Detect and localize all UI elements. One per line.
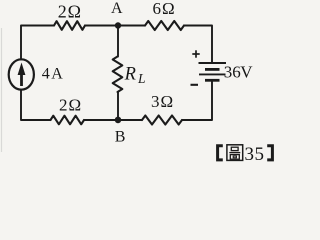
node B junction dot — [115, 117, 122, 124]
resistor 2ohm bottom zigzag — [51, 116, 85, 125]
svg-text:2Ω: 2Ω — [59, 96, 82, 115]
svg-text:2Ω: 2Ω — [58, 2, 82, 22]
svg-text:L: L — [137, 71, 146, 86]
battery minus sign — [191, 84, 199, 86]
svg-text:4A: 4A — [42, 66, 65, 83]
svg-text:B: B — [115, 129, 126, 146]
svg-text:6Ω: 6Ω — [153, 0, 176, 18]
svg-text:A: A — [111, 0, 123, 17]
wire node A to 6ohm — [118, 25, 145, 27]
wire node B to 2ohm bottom — [84, 119, 118, 121]
wire RL down to node B — [117, 92, 119, 120]
caption char tu (figure) box — [227, 145, 243, 161]
wire top middle to node A — [85, 25, 118, 27]
resistor R=2ohm top zigzag — [54, 21, 85, 30]
battery plus sign — [192, 50, 199, 57]
svg-text:35: 35 — [245, 144, 265, 165]
svg-text:R: R — [124, 65, 136, 85]
battery long plate 3 — [199, 73, 226, 75]
wire node B to 3ohm — [118, 119, 142, 121]
battery V1 36V plates — [199, 63, 227, 80]
wire top-right corner down to battery — [184, 26, 212, 64]
caption opening bracket — [218, 146, 223, 160]
wire node A down to RL — [117, 26, 119, 57]
caption closing bracket — [267, 146, 272, 160]
current source I=4A circle — [9, 59, 34, 89]
resistor 3ohm zigzag — [142, 116, 182, 125]
resistor 6ohm zigzag — [145, 21, 184, 30]
wire bottom-left corner up to source — [21, 90, 51, 121]
svg-text:36: 36 — [224, 63, 241, 82]
node A junction dot — [115, 22, 121, 28]
battery short plate 4 — [205, 79, 220, 82]
resistor RL vertical zigzag — [113, 57, 123, 93]
battery short plate 2 — [205, 68, 220, 71]
current source arrow — [20, 72, 23, 86]
svg-text:3Ω: 3Ω — [151, 92, 174, 111]
wire battery bottom down to corner and left — [182, 80, 212, 120]
battery long plate 1 — [199, 62, 227, 64]
svg-text:V: V — [240, 63, 253, 82]
wire top-left from corner to resistor — [21, 26, 54, 60]
